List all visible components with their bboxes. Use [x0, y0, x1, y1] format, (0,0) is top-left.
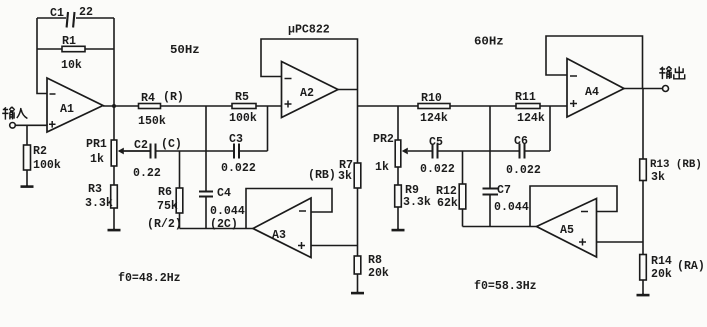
- svg-text:(R): (R): [163, 91, 184, 104]
- resistor R8: [354, 256, 361, 274]
- svg-text:3.3k: 3.3k: [85, 197, 113, 210]
- wire A5 feedback: [530, 186, 617, 227]
- svg-text:C6: C6: [514, 135, 528, 148]
- resistor R4: [139, 104, 161, 109]
- svg-text:150k: 150k: [138, 115, 166, 128]
- capacitor C1: [67, 12, 68, 28]
- resistor R10: [418, 104, 450, 109]
- wire input to A1 +: [15, 124, 47, 126]
- wire R1 row: [37, 48, 62, 50]
- wire A3 output row: [180, 228, 254, 230]
- op-amp A1: [47, 78, 103, 132]
- ground (R14): [637, 294, 650, 296]
- svg-text:μPC822: μPC822: [288, 24, 330, 37]
- svg-text:100k: 100k: [229, 112, 257, 125]
- svg-text:20k: 20k: [651, 268, 672, 281]
- svg-text:60Hz: 60Hz: [474, 35, 504, 49]
- svg-text:C4: C4: [217, 187, 231, 200]
- svg-text:50Hz: 50Hz: [170, 43, 200, 57]
- wire row B left: [119, 150, 150, 152]
- ground (R3): [108, 229, 121, 231]
- svg-text:R5: R5: [235, 91, 249, 104]
- svg-text:A2: A2: [300, 87, 314, 100]
- svg-text:10k: 10k: [61, 59, 82, 72]
- ground (R2): [21, 185, 34, 187]
- svg-text:PR2: PR2: [373, 133, 394, 146]
- resistor R5: [232, 104, 256, 109]
- svg-text:R2: R2: [33, 145, 47, 158]
- op-amp A4: [567, 59, 624, 118]
- svg-text:R6: R6: [158, 186, 172, 199]
- svg-text:R13 (RB): R13 (RB): [650, 159, 702, 171]
- op-amp A2: [282, 62, 339, 118]
- ground (R8): [351, 292, 364, 294]
- resistor R1: [62, 46, 85, 51]
- capacitor C4: [199, 191, 213, 193]
- svg-text:0.022: 0.022: [221, 162, 256, 175]
- svg-text:20k: 20k: [368, 267, 389, 280]
- svg-text:C3: C3: [229, 133, 243, 146]
- svg-text:(RB): (RB): [308, 169, 336, 182]
- capacitor C2: [150, 144, 152, 159]
- wire main row A left: [103, 105, 282, 107]
- resistor R3: [113, 166, 115, 185]
- svg-text:0.044: 0.044: [210, 205, 245, 218]
- wire R11 right vertical to row B: [549, 106, 551, 151]
- svg-text:3k: 3k: [338, 170, 352, 183]
- svg-text:f0=48.2Hz: f0=48.2Hz: [118, 272, 181, 285]
- wire A4 feedback: [546, 36, 643, 89]
- wire A3 feedback: [246, 189, 332, 229]
- node output terminal: [663, 86, 669, 92]
- node A1 output junction: [112, 104, 116, 108]
- svg-text:C2: C2: [134, 139, 148, 152]
- svg-text:A1: A1: [60, 103, 74, 116]
- svg-text:R4: R4: [141, 92, 155, 105]
- capacitor C5: [432, 144, 434, 159]
- svg-text:124k: 124k: [517, 112, 545, 125]
- label 输入 (input): [2, 107, 27, 120]
- svg-text:1k: 1k: [90, 153, 104, 166]
- ground (R9): [392, 229, 405, 231]
- capacitor C7: [483, 188, 499, 190]
- wire vertical rowA to C4: [205, 106, 207, 191]
- resistor R2: [26, 125, 28, 146]
- potentiometer PR2: [397, 106, 399, 140]
- resistor R9: [397, 167, 399, 185]
- svg-text:R1: R1: [62, 35, 76, 48]
- svg-text:3k: 3k: [651, 171, 665, 184]
- resistor R6: [179, 151, 181, 188]
- svg-text:(RA): (RA): [677, 260, 705, 273]
- svg-text:62k: 62k: [437, 197, 458, 210]
- wire A1 feedback left vertical: [37, 18, 47, 94]
- potentiometer PR1: [113, 106, 115, 140]
- wire feedback top (C1 branch): [37, 17, 66, 19]
- svg-text:PR1: PR1: [86, 138, 107, 151]
- svg-text:124k: 124k: [420, 112, 448, 125]
- label 输出 (output): [659, 66, 685, 79]
- op-amp A3: [253, 198, 311, 258]
- svg-text:3.3k: 3.3k: [403, 196, 431, 209]
- resistor R13: [642, 89, 644, 160]
- svg-text:1k: 1k: [375, 161, 389, 174]
- svg-text:0.022: 0.022: [420, 163, 455, 176]
- svg-text:75k: 75k: [157, 200, 178, 213]
- svg-text:R14: R14: [651, 255, 672, 268]
- svg-text:R10: R10: [421, 92, 442, 105]
- svg-text:R3: R3: [88, 183, 102, 196]
- svg-text:(C): (C): [161, 138, 182, 151]
- wire A5 + input: [597, 241, 644, 243]
- resistor R11: [516, 104, 540, 109]
- wire A5 output row: [463, 226, 537, 228]
- svg-text:A4: A4: [585, 86, 599, 99]
- svg-text:R11: R11: [515, 91, 536, 104]
- svg-text:C1: C1: [50, 7, 64, 20]
- resistor R7: [357, 106, 359, 163]
- svg-text:A5: A5: [560, 224, 574, 237]
- capacitor C3: [233, 144, 235, 159]
- resistor R12: [462, 151, 464, 184]
- wire feedback right vertical: [113, 18, 115, 106]
- wire A4 output: [624, 88, 663, 90]
- wire A3 + input: [311, 245, 358, 247]
- wire vertical rowA to C7: [489, 106, 491, 188]
- svg-text:0.022: 0.022: [506, 164, 541, 177]
- wire main row A right: [358, 105, 568, 107]
- wire A2 output: [338, 89, 358, 91]
- node input terminal: [10, 123, 16, 129]
- svg-text:0.22: 0.22: [133, 167, 161, 180]
- op-amp A5: [537, 199, 597, 258]
- svg-text:R8: R8: [368, 254, 382, 267]
- svg-text:(R/2): (R/2): [147, 218, 182, 231]
- svg-text:A3: A3: [272, 229, 286, 242]
- svg-text:C7: C7: [497, 184, 511, 197]
- svg-text:f0=58.3Hz: f0=58.3Hz: [474, 280, 537, 293]
- svg-text:22: 22: [79, 6, 93, 19]
- capacitor C6: [519, 144, 521, 159]
- wire A2 feedback: [261, 39, 358, 106]
- wire row B right: [438, 150, 519, 152]
- svg-text:0.044: 0.044: [494, 201, 529, 214]
- svg-text:100k: 100k: [33, 159, 61, 172]
- svg-text:C5: C5: [429, 136, 443, 149]
- resistor R14: [640, 255, 647, 281]
- wire C3 right vertical to row A: [267, 106, 269, 151]
